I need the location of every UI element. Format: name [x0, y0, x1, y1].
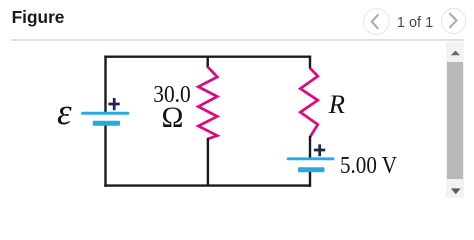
wire: right side lower (battery 5.00 V down to node D) — [309, 172, 311, 187]
battery EMF top plate (+) — [81, 112, 129, 115]
wire: left side lower (battery EMF - terminal down to node B bottom-left) — [104, 126, 106, 187]
battery EMF bottom plate (-) — [93, 121, 120, 126]
scrollbar thumb — [447, 62, 464, 179]
resistor R2 "R" zigzag — [300, 68, 318, 137]
svg-text:ε: ε — [57, 92, 72, 133]
pagination label "1 of 1" — [396, 15, 434, 31]
wire: middle branch upper stub (top junction down to resistor R1) — [206, 56, 208, 68]
resistor R1 30.0 ohm zigzag — [198, 67, 217, 139]
wire: middle branch lower stub (resistor R1 down to bottom junction) — [207, 138, 209, 187]
svg-text:5.00 V: 5.00 V — [340, 153, 398, 179]
pagination next chevron — [441, 8, 467, 34]
pagination next button — [441, 8, 466, 33]
wire: bottom side from node B (bottom-left) to node D (bottom-right) — [104, 184, 311, 186]
pagination prev button — [363, 8, 390, 35]
header title "Figure" — [12, 7, 65, 28]
battery 5.00 V top plate (+) — [287, 157, 335, 160]
polarity plus sign of battery EMF — [108, 98, 119, 110]
battery 5.00 V bottom plate (-) — [298, 167, 325, 172]
svg-text:R: R — [328, 89, 345, 119]
wire: right side between resistor R2 and battery 5.00 V — [309, 136, 311, 158]
svg-text:Ω: Ω — [162, 102, 184, 134]
scrollbar down arrow — [446, 186, 465, 197]
scrollbar track — [446, 42, 465, 198]
pagination prev chevron — [363, 8, 391, 36]
scrollbar up arrow — [446, 48, 465, 58]
wire: top side from node A (top-left) to node C (top-right) — [104, 56, 311, 58]
wire: left side upper (node A down to battery EMF + terminal) — [104, 56, 106, 113]
wire: right side upper stub (node C down to resistor R2) — [309, 56, 311, 69]
header divider rule — [11, 39, 464, 40]
polarity plus sign of battery 5.00 V — [314, 144, 325, 156]
